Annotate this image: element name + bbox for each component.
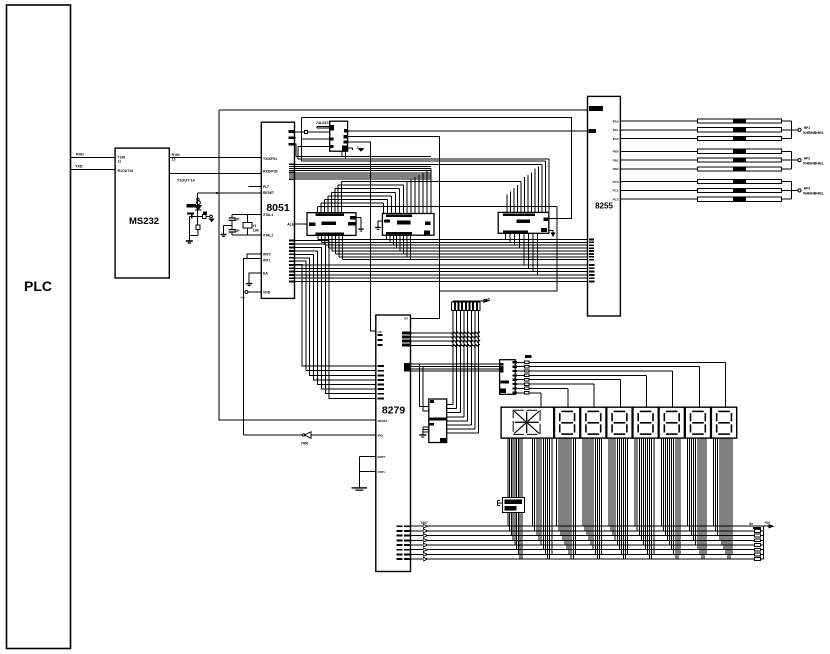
svg-text:PB2: PB2 [613, 167, 619, 171]
wire 8051 pin to bus line1 [295, 144, 297, 156]
svg-text:R1OUT10: R1OUT10 [118, 169, 134, 173]
display DS4 7-segment digit [607, 407, 632, 438]
wire L2 vertical tap [300, 118, 302, 161]
svg-text:PLT: PLT [263, 185, 269, 189]
PLC box [7, 5, 71, 649]
svg-text:XTAL1: XTAL1 [263, 213, 273, 217]
svg-text:+5: +5 [486, 297, 490, 301]
KDC 8279 [376, 315, 411, 572]
svg-text:8x: 8x [749, 522, 753, 526]
wire EA ground [246, 273, 261, 286]
MS232 pin labels left [118, 156, 134, 173]
resistors R2x and wires digit select [513, 355, 726, 407]
wire PLT stub [248, 186, 261, 188]
inverter U7 7406 (IRQ) [244, 432, 376, 446]
driver U12 75452 [498, 498, 525, 513]
wire address stair into EPROM U4 [384, 168, 431, 213]
wire bus OUTA/OUTB with junctions [402, 331, 480, 346]
wire INT0 [247, 254, 261, 258]
svg-text:+5: +5 [241, 296, 245, 300]
svg-text:13: 13 [172, 157, 176, 161]
8255 left pin labels [589, 106, 604, 282]
svg-text:PB0: PB0 [613, 150, 619, 154]
resistors RP4 pullups bus end [749, 521, 773, 561]
resistor group RP3 to indicator HP3 [613, 180, 825, 202]
svg-text:RXD: RXD [76, 153, 84, 157]
wire RXD [71, 153, 116, 158]
resistor network RN1 pullups [452, 297, 490, 310]
wire latch Q2 to 8279 A0 net [348, 137, 440, 319]
svg-text:EA: EA [263, 272, 268, 276]
svg-text:+5V: +5V [764, 521, 771, 525]
wire latch bottom stubs [342, 151, 346, 159]
svg-text:VDD: VDD [263, 291, 271, 295]
svg-text:RXD/P30: RXD/P30 [263, 170, 278, 174]
svg-text:ALE: ALE [287, 222, 295, 226]
wire data bus D0-D7 [318, 235, 588, 260]
svg-text:MS232: MS232 [129, 216, 159, 227]
wire U4 CE ground [375, 221, 382, 229]
wire bus P1 to 8279 stair [295, 241, 376, 399]
wire DS4 segment pins [609, 438, 628, 559]
wire bus SL0-SL3 [404, 363, 500, 372]
svg-text:PLC: PLC [24, 278, 52, 294]
wire bus A0-A7 latch to ROMs [317, 182, 557, 213]
svg-text:IRQ: IRQ [378, 434, 384, 438]
svg-text:HP3: HP3 [804, 187, 811, 191]
IC MS232 [115, 148, 169, 278]
driver U9 75451 [429, 399, 447, 443]
svg-text:TXD/P31: TXD/P31 [263, 157, 277, 161]
wire DS3 segment pins [583, 438, 602, 559]
svg-text:INT1: INT1 [263, 258, 271, 262]
EPROM U4 2764 [382, 214, 434, 236]
wire A0 branch [440, 207, 558, 291]
wire U9 ground [419, 427, 429, 437]
svg-text:PC0: PC0 [613, 180, 619, 184]
wire R1IN to 8051 TXD [169, 153, 261, 161]
wire latch stub b [317, 126, 330, 128]
wire DS2 segment pins [557, 438, 576, 559]
ROM U3 2732 [307, 213, 356, 236]
wire DS7 segment pins [687, 438, 706, 559]
svg-text:INT0: INT0 [263, 253, 271, 257]
wire latch Q1 to 8255 [348, 130, 588, 132]
MCU 8051 [261, 122, 294, 298]
svg-text:PA1: PA1 [613, 128, 619, 132]
wire net L1 (x218 to 8255) [219, 109, 588, 111]
wire T1OUT to 8051 RXD [169, 174, 261, 183]
driver U10 7445 [500, 360, 516, 395]
svg-text:74LS373: 74LS373 [316, 121, 331, 125]
wire RESET [197, 192, 261, 194]
latch U2 74LS373 [316, 121, 348, 151]
svg-text:XHBHBHEL: XHBHBHEL [803, 161, 825, 165]
wire latch D in 2 [301, 138, 329, 140]
display DS1 starburst digit [501, 407, 554, 438]
svg-text:PA2: PA2 [613, 137, 619, 141]
svg-text:HP1: HP1 [804, 126, 811, 130]
svg-text:PC2: PC2 [613, 198, 619, 202]
display DS6 7-segment digit [659, 407, 684, 438]
svg-text:PC1: PC1 [613, 189, 619, 193]
wire U5 data drops [506, 233, 538, 275]
wire DS6 segment pins [661, 438, 680, 559]
wire U5 WE arrow [549, 231, 555, 236]
svg-text:TXD: TXD [75, 165, 83, 169]
display DS8 7-segment digit [711, 407, 736, 438]
PPI 8255 [588, 96, 621, 316]
wire VDD +5 [241, 291, 262, 301]
svg-text:CS: CS [378, 330, 382, 334]
wire net L2 (y118 to RAM OE) [301, 118, 571, 219]
wire address stair into RAM U5 [507, 159, 549, 213]
wire net x218 vertical to 8279 RESET [219, 110, 376, 420]
latch U2 left pin labels [330, 125, 334, 148]
wire latch D in [295, 138, 330, 159]
wire DSPY CNTL ground [352, 457, 376, 490]
wire DS1 segment pins [508, 438, 552, 559]
latch U2 right pin labels [342, 129, 347, 151]
resistor group RP1 to indicator HP1 [613, 119, 825, 141]
8279 A0 pin label [404, 317, 408, 321]
svg-text:30P: 30P [234, 229, 241, 233]
svg-text:PA0: PA0 [613, 119, 619, 123]
wire RN1 verticals to U8 outputs [447, 311, 479, 434]
svg-text:A0: A0 [404, 317, 408, 321]
display DS7 7-segment digit [685, 407, 710, 438]
svg-text:11M: 11M [253, 228, 259, 232]
display DS5 7-segment digit [633, 407, 658, 438]
RAM U5 6264 [498, 212, 549, 233]
wire TXD [71, 165, 116, 170]
svg-text:11: 11 [118, 160, 122, 164]
buffers U11 7407 [421, 521, 429, 561]
svg-text:XTAL2: XTAL2 [263, 234, 273, 238]
svg-text:XHBHBHEL: XHBHBHEL [803, 192, 825, 196]
wire control bus RD/WR/A0/A1 [295, 265, 588, 282]
wire segment bus B0-B7 [411, 526, 755, 559]
crystal circuit (Y1, C2, C3, ground) [221, 214, 262, 236]
8051 left pin labels [263, 157, 278, 295]
8051 right pin labels [287, 130, 295, 282]
svg-text:DSPY: DSPY [378, 455, 386, 459]
wire U3 OE ground [356, 218, 364, 231]
svg-text:XHBHBHEL: XHBHBHEL [803, 131, 825, 135]
svg-text:RESET: RESET [263, 191, 274, 195]
wire latch Q3 to 8279 CS [348, 142, 376, 331]
8279 right pin labels [397, 525, 411, 560]
svg-text:T1OUT 14: T1OUT 14 [177, 178, 196, 182]
wire latch pin4 +5 arrow [348, 145, 364, 151]
svg-text:30P: 30P [234, 217, 241, 221]
resistor group RP2 to indicator HP2 [613, 149, 825, 171]
display DS2 7-segment digit [555, 407, 580, 438]
wire latch stub a [317, 125, 330, 127]
wire INT1 to inverter [244, 258, 262, 435]
wire SL taps to U8b [420, 364, 429, 411]
wire DS8 segment pins [714, 438, 733, 559]
svg-text:PB1: PB1 [613, 158, 619, 162]
svg-text:7407: 7407 [421, 521, 429, 525]
svg-text:7406: 7406 [301, 442, 309, 446]
wire ALE to U3 [295, 223, 308, 225]
8279 left pin labels [377, 330, 387, 474]
wire DS5 segment pins [635, 438, 654, 559]
reset circuit (diode D1, cap C1, resistor R1, ground) [186, 193, 214, 243]
wire bus P0 AD lines [295, 157, 550, 180]
svg-text:HP2: HP2 [804, 156, 811, 160]
svg-text:CNTL: CNTL [378, 470, 386, 474]
svg-text:RESET: RESET [378, 419, 388, 423]
svg-text:8279: 8279 [382, 405, 406, 417]
display DS3 7-segment digit [581, 407, 606, 438]
svg-text:8255: 8255 [595, 202, 613, 211]
wire 8051 P2x to latch (with square) [295, 130, 330, 133]
